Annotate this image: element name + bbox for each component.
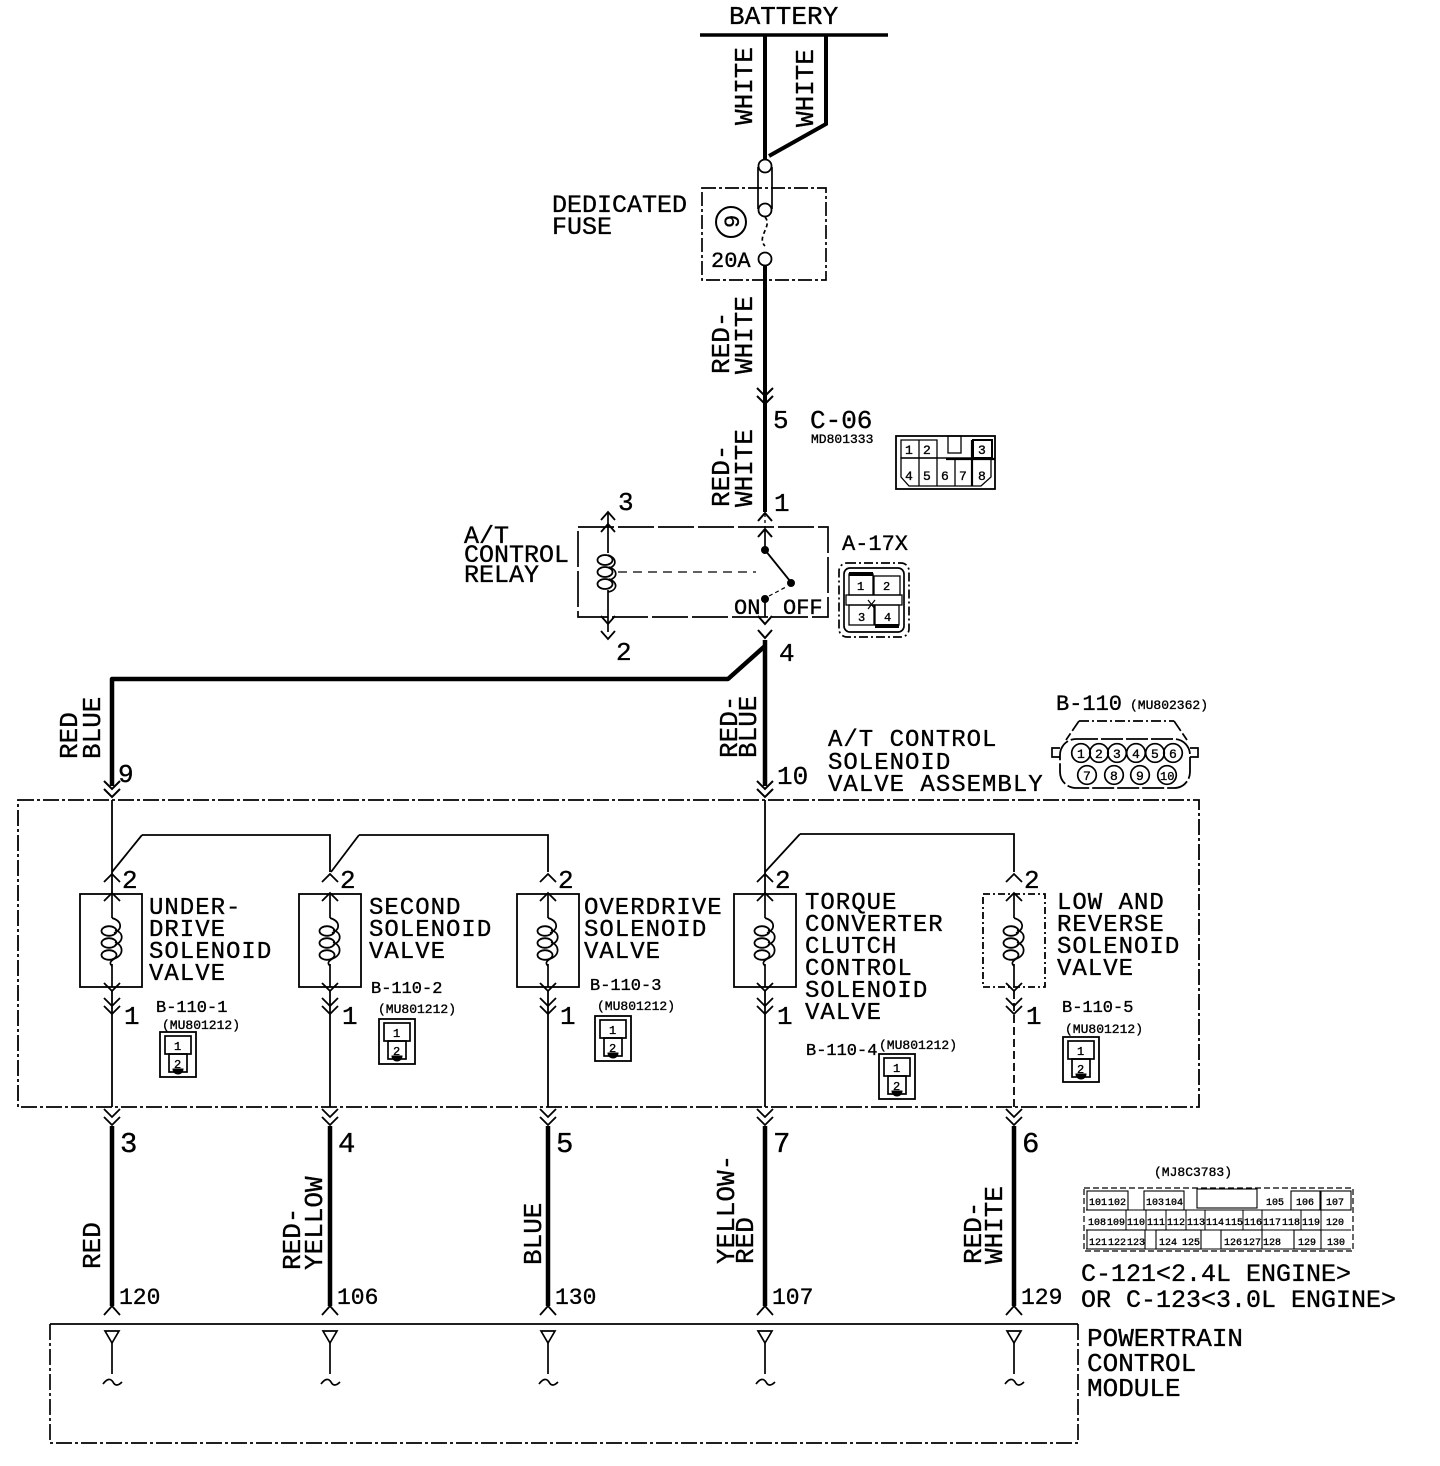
solenoid S4 coil xyxy=(755,894,775,987)
wire branch diagonal to bus 1 xyxy=(112,835,142,872)
solenoid S1 box xyxy=(80,894,142,987)
svg-text:1: 1 xyxy=(893,1062,900,1076)
svg-text:1: 1 xyxy=(774,489,790,519)
bus wire 3 xyxy=(800,834,1014,872)
svg-text:6: 6 xyxy=(941,469,949,484)
solenoid S1 coil xyxy=(102,894,122,987)
solenoid S4 box xyxy=(734,894,796,987)
svg-text:A-17X: A-17X xyxy=(842,532,908,557)
connector B-110-1 pin diagram xyxy=(160,1032,196,1077)
assembly box exit arrows wire 5 xyxy=(1006,1109,1022,1125)
svg-text:2: 2 xyxy=(1095,747,1103,762)
svg-text:VALVE: VALVE xyxy=(1057,956,1134,983)
svg-text:(MU801212): (MU801212) xyxy=(378,1002,456,1017)
svg-text:4: 4 xyxy=(884,611,891,625)
wire pin9 to solenoid 1 inside box xyxy=(111,800,113,894)
svg-text:4: 4 xyxy=(1132,747,1140,762)
svg-text:129: 129 xyxy=(1298,1238,1316,1249)
solenoid S3 box xyxy=(517,894,579,987)
svg-text:7: 7 xyxy=(1083,769,1091,784)
svg-text:3: 3 xyxy=(858,611,865,625)
svg-text:2: 2 xyxy=(558,866,574,896)
connector A-17X pin diagram xyxy=(839,563,909,637)
connector B-110 pin diagram xyxy=(1052,721,1198,788)
svg-text:2: 2 xyxy=(1024,866,1040,896)
wire label WHITE (right) xyxy=(791,49,821,127)
svg-text:OFF: OFF xyxy=(783,596,823,621)
pin 7 label xyxy=(773,1128,790,1161)
wire branch diagonal to bus 2 xyxy=(331,835,359,872)
solenoid S5 box xyxy=(983,894,1045,987)
svg-text:114: 114 xyxy=(1206,1218,1224,1229)
wire to PCM 5 xyxy=(1006,1126,1022,1315)
wire solenoid S3 pin1 to assembly box edge xyxy=(547,991,549,1107)
solenoid S3 pin 2 arrows xyxy=(540,866,574,901)
pin 9 entry arrows xyxy=(104,781,120,797)
battery bus bar xyxy=(700,33,888,37)
svg-text:4: 4 xyxy=(905,469,913,484)
fuse rating 20A xyxy=(711,249,751,274)
svg-text:115: 115 xyxy=(1225,1218,1243,1229)
svg-text:3: 3 xyxy=(978,443,986,458)
svg-text:2: 2 xyxy=(883,580,890,594)
svg-text:109: 109 xyxy=(1107,1218,1125,1229)
svg-text:1: 1 xyxy=(342,1002,358,1032)
svg-text:2: 2 xyxy=(122,866,138,896)
solenoid S1 name label xyxy=(149,895,272,988)
svg-text:106: 106 xyxy=(1296,1198,1314,1209)
wire RED-BLUE relay pin4 down xyxy=(763,640,768,786)
relay pin 4 arrows and label xyxy=(758,616,795,669)
relay ON OFF labels xyxy=(734,596,823,621)
assembly box exit arrows wire 2 xyxy=(322,1109,338,1125)
svg-text:107: 107 xyxy=(1326,1198,1344,1209)
svg-text:2: 2 xyxy=(1077,1063,1084,1077)
svg-text:3: 3 xyxy=(1113,747,1121,762)
svg-text:RELAY: RELAY xyxy=(464,561,539,590)
svg-text:4: 4 xyxy=(338,1128,355,1161)
connector C-121 pin grid xyxy=(1084,1188,1353,1251)
svg-text:113: 113 xyxy=(1187,1218,1205,1229)
wire to PCM 4 xyxy=(757,1126,773,1315)
wire pin10 to solenoid 4 inside box xyxy=(764,800,766,894)
svg-text:5: 5 xyxy=(923,469,931,484)
solenoid S2 pin 2 arrows xyxy=(322,866,356,901)
solenoid S4 name label xyxy=(805,890,944,1027)
svg-text:WHITE: WHITE xyxy=(791,49,821,127)
svg-text:2: 2 xyxy=(393,1045,400,1059)
svg-text:104: 104 xyxy=(1165,1198,1183,1209)
wire WHITE left from battery xyxy=(763,35,767,160)
wire label YELLOW xyxy=(300,1176,330,1270)
PCM pin 106 symbol xyxy=(321,1331,340,1385)
svg-text:125: 125 xyxy=(1182,1238,1200,1249)
svg-text:BLUE: BLUE xyxy=(734,696,764,758)
svg-text:RED: RED xyxy=(78,1222,108,1269)
connector B-110-5 pin diagram xyxy=(1063,1037,1099,1082)
solenoid S5 pin 1 arrows xyxy=(1006,983,1042,1032)
svg-text:4: 4 xyxy=(779,639,795,669)
solenoid S1 pin 1 arrows xyxy=(104,983,140,1032)
wire label YELLOW- xyxy=(712,1155,742,1264)
pin 10 label xyxy=(777,762,808,792)
A/T control solenoid valve assembly box xyxy=(18,800,1199,1107)
A/T control relay label xyxy=(464,522,569,590)
svg-text:110: 110 xyxy=(1127,1218,1145,1229)
svg-text:RED: RED xyxy=(731,1217,761,1264)
connector B-110-5 label xyxy=(1062,999,1143,1037)
wire to PCM 2 xyxy=(322,1126,338,1315)
wire label BLUE xyxy=(519,1203,549,1265)
wire label RED-WHITE (above relay) xyxy=(707,429,760,507)
wire label RED xyxy=(731,1217,761,1264)
solenoid S4 pin 2 arrows xyxy=(757,866,791,901)
solenoid S5 name label xyxy=(1057,890,1180,983)
relay pin 3 arrow and label xyxy=(601,488,634,553)
svg-text:WHITE: WHITE xyxy=(730,429,760,507)
wire solenoid S4 pin1 to assembly box edge xyxy=(764,991,766,1107)
svg-text:108: 108 xyxy=(1088,1218,1106,1229)
svg-text:9: 9 xyxy=(118,760,134,790)
A/T control relay box xyxy=(578,527,828,617)
svg-text:117: 117 xyxy=(1263,1218,1281,1229)
svg-text:103: 103 xyxy=(1146,1198,1164,1209)
svg-text:VALVE: VALVE xyxy=(584,939,661,966)
bus wire 2 xyxy=(359,835,548,872)
svg-text:120: 120 xyxy=(1326,1218,1344,1229)
wire label RED- xyxy=(959,1202,989,1264)
pin 4 label xyxy=(338,1128,355,1161)
svg-text:106: 106 xyxy=(337,1285,378,1311)
wire branch diagonal to bus 3 xyxy=(765,834,800,872)
connector A-17X label xyxy=(842,532,908,557)
svg-text:9: 9 xyxy=(1136,769,1144,784)
connector C-06 inline chevrons pin 5 xyxy=(757,388,773,404)
svg-text:128: 128 xyxy=(1263,1238,1281,1249)
wire WHITE right from battery xyxy=(769,35,826,156)
svg-text:B-110-2: B-110-2 xyxy=(371,980,442,999)
svg-text:2: 2 xyxy=(616,638,632,668)
svg-text:122: 122 xyxy=(1108,1238,1126,1249)
terminal 130 label xyxy=(555,1285,596,1311)
dedicated fuse box xyxy=(702,188,826,280)
relay coil-contact dashed link xyxy=(618,571,756,573)
svg-text:120: 120 xyxy=(119,1285,160,1311)
terminal 106 label xyxy=(337,1285,378,1311)
terminal 107 label xyxy=(772,1285,813,1311)
solenoid S4 pin 1 arrows xyxy=(757,983,793,1032)
connector B-110-3 label xyxy=(590,977,675,1014)
svg-text:3: 3 xyxy=(120,1128,137,1161)
relay coil xyxy=(598,555,616,592)
wire label WHITE (left) xyxy=(730,47,760,125)
wire solenoid S1 pin1 to assembly box edge xyxy=(111,991,113,1107)
svg-text:119: 119 xyxy=(1302,1218,1320,1229)
svg-text:MODULE: MODULE xyxy=(1087,1374,1181,1404)
svg-text:107: 107 xyxy=(772,1285,813,1311)
svg-text:5: 5 xyxy=(773,406,789,436)
solenoid S1 pin 2 arrows xyxy=(104,866,138,901)
svg-text:(MU801212): (MU801212) xyxy=(879,1038,957,1053)
svg-text:2: 2 xyxy=(340,866,356,896)
battery label xyxy=(729,2,839,32)
svg-text:FUSE: FUSE xyxy=(552,213,612,242)
powertrain control module box xyxy=(50,1324,1078,1443)
svg-text:WHITE: WHITE xyxy=(980,1186,1010,1264)
solenoid S5 pin 2 arrows xyxy=(1006,866,1040,901)
wire to PCM 1 xyxy=(104,1126,120,1315)
solenoid S2 name label xyxy=(369,895,492,966)
svg-text:1: 1 xyxy=(609,1024,616,1038)
connector B-110-1 label xyxy=(156,999,240,1033)
fuse element barrel xyxy=(758,167,772,266)
svg-text:BATTERY: BATTERY xyxy=(729,2,839,32)
svg-text:2: 2 xyxy=(775,866,791,896)
wire label WHITE xyxy=(980,1186,1010,1264)
PCM pin 120 symbol xyxy=(103,1331,122,1385)
svg-text:1: 1 xyxy=(905,443,913,458)
svg-text:130: 130 xyxy=(555,1285,596,1311)
svg-text:2: 2 xyxy=(893,1080,900,1094)
svg-text:124: 124 xyxy=(1159,1238,1177,1249)
relay pin 2 arrow and label xyxy=(601,590,632,668)
svg-text:ON: ON xyxy=(734,596,760,621)
solenoid S2 coil xyxy=(320,894,340,987)
pin 6 label xyxy=(1022,1128,1039,1161)
assembly box exit arrows wire 3 xyxy=(540,1109,556,1125)
svg-text:B-110-3: B-110-3 xyxy=(590,977,661,996)
svg-text:5: 5 xyxy=(556,1128,573,1161)
svg-text:(MU801212): (MU801212) xyxy=(1065,1022,1143,1037)
svg-text:1: 1 xyxy=(1077,747,1085,762)
wire label RED xyxy=(78,1222,108,1269)
wire label RED- xyxy=(278,1208,308,1270)
svg-text:102: 102 xyxy=(1108,1198,1126,1209)
svg-text:3: 3 xyxy=(618,488,634,518)
svg-text:BLUE: BLUE xyxy=(78,697,108,759)
svg-text:7: 7 xyxy=(773,1128,790,1161)
svg-text:127: 127 xyxy=(1243,1238,1261,1249)
solenoid S5 coil xyxy=(1004,894,1024,987)
wire solenoid S5 pin1 to assembly box edge xyxy=(1013,991,1015,1107)
wire label RED-WHITE (above C-06) xyxy=(707,296,760,374)
connector B-110 label xyxy=(1056,692,1208,717)
svg-text:1: 1 xyxy=(857,580,864,594)
pin 9 label xyxy=(118,760,134,790)
svg-text:1: 1 xyxy=(174,1040,181,1054)
svg-text:YELLOW: YELLOW xyxy=(300,1176,330,1270)
svg-text:1: 1 xyxy=(124,1002,140,1032)
svg-text:1: 1 xyxy=(777,1002,793,1032)
terminal 129 label xyxy=(1021,1285,1062,1311)
svg-text:(MU801212): (MU801212) xyxy=(597,999,675,1014)
svg-text:B-110-1: B-110-1 xyxy=(156,999,227,1018)
svg-text:(MU801212): (MU801212) xyxy=(162,1018,240,1033)
node junction above fuse xyxy=(759,160,772,173)
svg-text:129: 129 xyxy=(1021,1285,1062,1311)
connector B-110-4 label xyxy=(806,1038,957,1061)
svg-text:130: 130 xyxy=(1327,1238,1345,1249)
fuse number 9 circled xyxy=(716,207,746,237)
svg-text:6: 6 xyxy=(1169,747,1177,762)
connector C-121 name label xyxy=(1081,1260,1396,1315)
bus wire 1 xyxy=(142,835,330,872)
connector C-121 part number label xyxy=(1154,1165,1232,1180)
wire RED-WHITE fuse to relay xyxy=(763,266,767,512)
pin 5 label xyxy=(773,406,789,436)
svg-text:8: 8 xyxy=(1110,769,1118,784)
svg-text:WHITE: WHITE xyxy=(730,296,760,374)
svg-text:101: 101 xyxy=(1089,1198,1107,1209)
connector B-110-2 label xyxy=(371,980,456,1017)
svg-text:OR C-123<3.0L ENGINE>: OR C-123<3.0L ENGINE> xyxy=(1081,1286,1396,1315)
svg-text:123: 123 xyxy=(1127,1238,1145,1249)
svg-text:2: 2 xyxy=(174,1058,181,1072)
svg-text:20A: 20A xyxy=(711,249,751,274)
wire solenoid S2 pin1 to assembly box edge xyxy=(329,991,331,1107)
svg-text:10: 10 xyxy=(1160,770,1174,784)
connector B-110-4 pin diagram xyxy=(879,1054,915,1099)
wire RED-BLUE branch to left xyxy=(112,646,765,786)
pin 5 label xyxy=(556,1128,573,1161)
solenoid S2 box xyxy=(299,894,361,987)
svg-text:121: 121 xyxy=(1089,1238,1107,1249)
solenoid S2 pin 1 arrows xyxy=(322,983,358,1032)
svg-text:VALVE: VALVE xyxy=(805,1000,882,1027)
solenoid S3 coil xyxy=(538,894,558,987)
relay switch contact xyxy=(762,529,795,617)
dedicated fuse label xyxy=(552,191,687,242)
svg-text:BLUE: BLUE xyxy=(519,1203,549,1265)
svg-text:111: 111 xyxy=(1147,1218,1165,1229)
svg-text:8: 8 xyxy=(978,469,986,484)
terminal 120 label xyxy=(119,1285,160,1311)
wire label RED-BLUE (right) xyxy=(715,696,764,758)
svg-text:10: 10 xyxy=(777,762,808,792)
svg-text:9: 9 xyxy=(721,215,746,228)
svg-text:(MU802362): (MU802362) xyxy=(1130,698,1208,713)
svg-text:112: 112 xyxy=(1167,1218,1185,1229)
svg-text:118: 118 xyxy=(1282,1218,1300,1229)
svg-text:1: 1 xyxy=(1026,1002,1042,1032)
svg-text:MD801333: MD801333 xyxy=(811,432,873,447)
PCM pin 130 symbol xyxy=(539,1331,558,1385)
svg-text:2: 2 xyxy=(923,443,931,458)
svg-text:6: 6 xyxy=(1022,1128,1039,1161)
A/T control solenoid valve assembly label xyxy=(828,727,1044,799)
svg-text:2: 2 xyxy=(609,1042,616,1056)
pin 10 entry arrows xyxy=(757,781,773,797)
assembly box exit arrows wire 4 xyxy=(757,1109,773,1125)
pin 3 label xyxy=(120,1128,137,1161)
svg-text:C-121<2.4L ENGINE>: C-121<2.4L ENGINE> xyxy=(1081,1260,1351,1289)
connector B-110-3 pin diagram xyxy=(595,1016,631,1061)
relay pin 1 entry arrows xyxy=(758,513,772,537)
svg-text:B-110-4: B-110-4 xyxy=(806,1042,877,1061)
PCM pin 107 symbol xyxy=(756,1331,775,1385)
connector C-06 label xyxy=(810,406,873,447)
connector B-110-2 pin diagram xyxy=(379,1019,415,1064)
svg-text:VALVE: VALVE xyxy=(149,961,226,988)
svg-text:VALVE: VALVE xyxy=(369,939,446,966)
svg-text:1: 1 xyxy=(1077,1045,1084,1059)
svg-text:WHITE: WHITE xyxy=(730,47,760,125)
solenoid S3 name label xyxy=(584,895,723,966)
assembly box exit arrows wire 1 xyxy=(104,1109,120,1125)
svg-text:B-110-5: B-110-5 xyxy=(1062,999,1133,1018)
powertrain control module label xyxy=(1087,1324,1243,1404)
wire label RED BLUE (left) xyxy=(55,697,108,759)
solenoid S3 pin 1 arrows xyxy=(540,983,576,1032)
svg-text:(MJ8C3783): (MJ8C3783) xyxy=(1154,1165,1232,1180)
svg-text:105: 105 xyxy=(1266,1198,1284,1209)
pin 1 label (relay) xyxy=(774,489,790,519)
svg-text:126: 126 xyxy=(1224,1238,1242,1249)
svg-text:B-110: B-110 xyxy=(1056,692,1122,717)
connector C-06 pin diagram xyxy=(896,436,995,489)
PCM pin 129 symbol xyxy=(1005,1331,1024,1385)
svg-text:1: 1 xyxy=(560,1002,576,1032)
svg-text:1: 1 xyxy=(393,1027,400,1041)
svg-text:7: 7 xyxy=(959,469,967,484)
svg-text:VALVE ASSEMBLY: VALVE ASSEMBLY xyxy=(828,772,1044,799)
svg-text:5: 5 xyxy=(1151,747,1159,762)
wire to PCM 3 xyxy=(540,1126,556,1315)
svg-text:116: 116 xyxy=(1244,1218,1262,1229)
